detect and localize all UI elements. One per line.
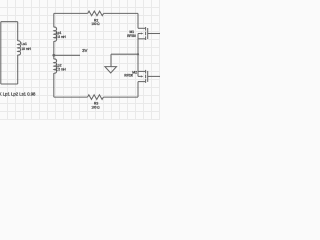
M2 body stub	[138, 75, 141, 77]
wire: ground link	[111, 53, 138, 55]
M1 body arrow	[141, 32, 144, 34]
node: ground link junction dot	[137, 53, 139, 55]
svg-text:100 Ω: 100 Ω	[91, 105, 100, 109]
M1 body stub	[138, 33, 141, 35]
svg-text:M2: M2	[132, 71, 137, 75]
M2 gate bar	[147, 71, 149, 82]
background	[0, 0, 160, 120]
inductor Ls1	[18, 41, 21, 55]
svg-text:2.8 mH: 2.8 mH	[56, 35, 66, 39]
wire: left loop top	[1, 21, 18, 23]
M2 gate lead	[148, 75, 160, 77]
wire: bottom rail left of R3	[54, 96, 88, 98]
wire: middle branch top lead	[53, 13, 55, 27]
wire: bottom rail right of R3	[103, 96, 138, 98]
inductor Lp2	[54, 59, 57, 73]
M1 channel bar	[145, 27, 147, 40]
M1 drain stub	[138, 27, 145, 29]
svg-text:Ls1: Ls1	[21, 42, 27, 46]
M1 source/body tie	[137, 34, 139, 55]
M1 gate bar	[147, 28, 149, 39]
svg-text:10 mH: 10 mH	[21, 47, 31, 51]
wire: top rail drop to M1 drain	[137, 13, 139, 28]
node: center tap junction dot	[52, 54, 55, 57]
M1 gate lead	[148, 33, 160, 35]
wire: left loop left side	[0, 22, 2, 84]
wire: 3V supply stub from center tap	[54, 54, 80, 56]
wire: between Lp1 and center tap	[53, 41, 55, 55]
M2 source stub	[138, 70, 145, 72]
resistor R3	[88, 95, 104, 100]
wire: left loop right side upper	[17, 22, 19, 41]
M2 channel bar	[145, 70, 147, 83]
transistor M2	[138, 54, 160, 83]
wire: left loop right side lower	[17, 55, 19, 84]
wire: bottom rail rise to M2 drain	[137, 82, 139, 98]
ground	[105, 67, 117, 73]
wire: top rail right of R2	[104, 12, 138, 14]
M2 body arrow	[141, 75, 144, 77]
resistor R2	[88, 11, 104, 16]
svg-text:K Lp1 Lp2 Ls1 0.98: K Lp1 Lp2 Ls1 0.98	[0, 91, 36, 96]
transistor M1	[138, 27, 160, 54]
svg-text:3V: 3V	[82, 48, 87, 53]
inductor Lp1	[54, 27, 57, 41]
svg-text:IRF530: IRF530	[127, 34, 136, 38]
M1 source stub	[138, 38, 145, 40]
wire: Lp2 bottom lead	[53, 73, 55, 97]
wire: ground drop	[110, 54, 112, 66]
M2 drain stub	[138, 81, 145, 83]
svg-text:100 Ω: 100 Ω	[91, 22, 100, 26]
svg-text:2.5 mH: 2.5 mH	[56, 68, 66, 72]
wire: center tap to Lp2	[53, 55, 55, 59]
svg-text:IRF530: IRF530	[124, 74, 133, 78]
M2 source/body tie	[137, 54, 139, 76]
wire: top rail left of R2	[54, 12, 88, 14]
wire: left loop bottom	[1, 83, 18, 85]
grid	[0, 0, 160, 120]
